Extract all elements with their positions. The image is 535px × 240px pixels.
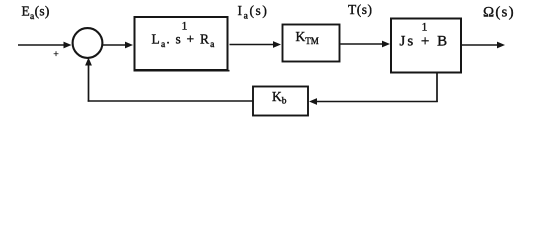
svg-text:1: 1 [422,20,428,34]
wire feedback bottom left segment [88,100,253,102]
wire feedback bottom right segment [315,101,438,103]
block G3 load 1/(Js+B) [391,19,461,73]
wire G1 to G2 [230,44,275,46]
arrowhead into block G2 [273,41,281,48]
summing junction S1 [73,28,103,58]
svg-text:+: + [53,50,58,60]
svg-text:T(s): T(s) [348,2,373,17]
svg-text:Ia(s): Ia(s) [238,3,269,22]
wire feedback tap from G3 bottom [436,72,438,102]
wire input to summing junction [18,44,65,46]
block H1 back-emf constant Kb [253,87,308,116]
arrowhead into block G3 [382,41,390,48]
wire output [462,44,499,46]
arrowhead into block G1 [125,42,133,49]
block G2 motor torque constant KTM [283,25,340,62]
svg-text:Ω(s): Ω(s) [483,4,515,20]
wire G2 to G3 [341,43,384,45]
arrowhead into block H1 [309,98,317,105]
block G1 armature 1/(La.s+Ra) [135,17,228,70]
arrowhead into summing junction [64,42,72,49]
svg-text:1: 1 [182,19,188,33]
wire feedback riser [88,63,90,102]
svg-text:Ea(s): Ea(s) [22,4,50,23]
arrowhead into summing junction bottom [85,58,92,66]
svg-text:Js + B: Js + B [400,34,450,50]
wire summing junction to block G1 [103,44,127,46]
arrowhead output [497,42,505,49]
